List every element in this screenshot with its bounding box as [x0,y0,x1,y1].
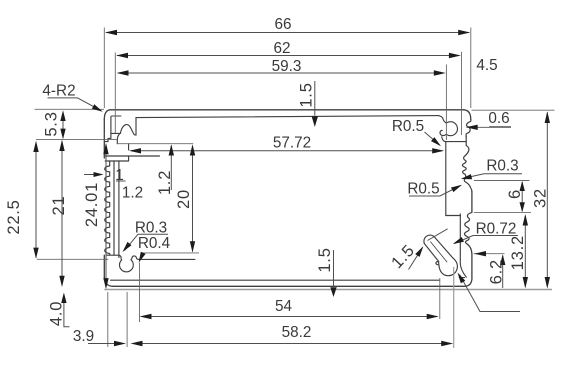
inner bottom surface line [111,279,440,281]
ext line 32 top right [472,109,555,111]
svg-text:24.01: 24.01 [83,182,101,227]
left serrated screw channel (bumps) [105,161,110,255]
ext line 3.9 right [126,292,128,347]
svg-text:R0.4: R0.4 [138,235,171,252]
svg-text:R0.3: R0.3 [486,158,518,175]
dim line 6.2 right [502,256,504,289]
clip lug foot [436,258,457,276]
svg-text:20: 20 [175,189,193,209]
ext line 3.9 left [107,292,109,347]
dim line 6 right [521,182,523,211]
arrow 62 right [449,53,461,58]
svg-text:6.2: 6.2 [487,259,505,284]
left inner thin wall line A [113,161,115,255]
svg-text:1.5: 1.5 [316,247,334,272]
arrow R0.5 top leader [431,137,441,146]
arrow 6.2 up [500,254,505,265]
diagonal clip lug right edge [434,236,453,258]
dim line 58.2 [136,343,452,345]
arrow 21 top [59,140,64,151]
dim line 62 [117,55,457,57]
ext line 20 top / under-lip line [117,143,193,145]
right wall outer straight segment [471,191,473,212]
leader 0.6 [477,126,511,129]
bottom-left boss ledge [107,254,119,256]
svg-text:54: 54 [275,298,293,315]
arrow 1.5 lug leader [415,246,423,257]
svg-text:3.9: 3.9 [73,328,94,345]
diagonal clip lug center line [431,242,448,262]
dim line 3.9 tail [88,343,122,345]
arrow 20 top [190,144,195,155]
arrow 57.72 left [129,148,141,153]
arrow 32 bottom [545,277,550,289]
arrow 57.72 right [432,148,444,153]
arrow 59.3 left [117,70,129,75]
right wall outer wavy section R0.3 [462,137,469,175]
ext line 62 right [461,52,463,135]
inner bottom right of foot [459,277,464,279]
leader R0.5 top [425,132,440,145]
arrow 24.01 top [103,143,108,154]
leader R0.3 left boss [125,234,169,250]
dim line 59.3 [118,72,442,74]
ext line 59.3 right / inner wall [445,65,447,141]
arrow 6.2 ledge left [474,251,486,256]
arrow 6 top [520,181,525,191]
svg-text:21: 21 [50,196,68,216]
arrow 13.2 top [523,214,528,226]
arrow 20 bottom [190,241,195,252]
diagonal clip lug left edge [424,244,438,262]
leader R0.3 right [463,174,523,179]
enclosure top-left corner R2 [104,110,110,120]
ext line 5.3 top [35,108,105,110]
under-lip left base curve [117,134,119,144]
dim line 13.2 right [524,216,526,285]
ext line 6 top right [474,180,530,182]
top-right screw boss circle with slot [439,116,458,136]
left inner thin wall line B [118,161,120,258]
right step ledge mid [446,215,461,217]
dim leader 1.2 serration [84,174,101,176]
top-left retaining mound (wedge) [120,125,136,136]
arrow 3.9 right-facing [114,341,126,346]
top-left PCB slot floor [111,132,120,134]
ext line 6 bottom / 13.2 top right [474,212,531,214]
leader 4-R2 [48,98,102,111]
enclosure outer top wall [110,109,464,111]
leader R0.4 left boss [140,253,144,260]
mound riser up to ceiling [135,118,137,136]
ext line 20 bottom / R0.4 underline [142,252,199,254]
svg-text:58.2: 58.2 [282,324,312,341]
right inner face lower [460,214,466,277]
arrow R0.3 left leader [123,242,132,252]
svg-text:R0.5: R0.5 [392,118,424,135]
arrow 0.6 leader [466,125,478,130]
dim line 1.5 top [314,81,316,116]
arrow 24.01 bottom [103,278,108,289]
ext line 22.5 bottom [37,258,109,260]
arrow R0.4 left leader [139,252,146,263]
svg-text:57.72: 57.72 [273,135,311,152]
ext line 66 right [470,28,472,109]
dim line 4.0 with foot [64,295,70,327]
dim line 21 [61,141,63,286]
inner top short segment left of mound [112,115,122,117]
slot mouth face [128,144,130,150]
svg-text:0.6: 0.6 [488,110,509,127]
arrow R0.3 right leader [461,174,472,179]
arrow 58.2 right [441,341,453,346]
leader 1.5 lug [409,229,448,270]
right wall outer transition to straight [464,174,472,191]
svg-text:59.3: 59.3 [272,58,302,75]
enclosure bottom-left corner R2 [104,277,113,286]
arrow 22.5 bottom [33,248,38,259]
dim line 24.01 [105,145,107,288]
svg-text:32: 32 [532,188,550,208]
svg-text:22.5: 22.5 [5,199,23,234]
dim leader 1.2rot [170,146,172,191]
svg-text:1: 1 [115,167,124,184]
svg-text:1.2: 1.2 [156,170,174,195]
svg-text:6: 6 [506,189,524,199]
arrow 66 right [458,30,470,35]
lower lip bottom [105,156,128,161]
arrow 1.2 serration right [94,172,104,177]
enclosure top-right corner R2 [464,110,471,120]
arrow 62 left [116,53,128,58]
inner top surface line [136,116,439,118]
svg-text:R0.5: R0.5 [407,181,439,198]
arrow 6 bottom [520,202,525,212]
svg-text:13.2: 13.2 [509,235,527,270]
diagonal clip lug tip arc [424,235,434,243]
svg-text:R0.3: R0.3 [135,220,167,237]
arrow 4-R2 leader [92,104,103,112]
svg-text:4.0: 4.0 [48,301,66,326]
enclosure outer bottom wall [113,285,465,287]
right wall outer: top corner to step [466,120,471,137]
arrow R0.5 lower leader [451,185,462,192]
leader R0.72 [455,236,519,244]
label 1 underline [116,180,126,182]
svg-text:1.2: 1.2 [122,185,143,202]
arrow 5.3 bottom [60,129,65,140]
arrow 5.3 top [60,110,65,121]
bottom-left screw boss circle with slot [119,255,135,272]
leader R0.5 lower [409,186,461,197]
svg-text:1.5: 1.5 [388,241,418,272]
left wall inner face upper [105,117,111,142]
dim line 22.5 [35,143,37,258]
bottom gray extension line [104,289,552,291]
svg-text:62: 62 [273,40,290,57]
svg-text:1.5: 1.5 [298,82,316,107]
arrow 1.5 top (inverted below wall) [312,116,318,127]
ext line 54 right [439,278,441,319]
ext line 58.2 right [453,267,455,348]
arrow 54 left [140,314,152,319]
ext line 66 left [103,28,105,109]
dim line 54 [142,316,438,318]
lower lip top face [106,155,160,157]
enclosure left outer wall [103,120,105,278]
arrow 59.3 right [434,70,446,75]
dim line 66 [106,32,469,34]
svg-text:66: 66 [274,16,291,33]
arrow 66 left [105,30,117,35]
arrow clip L-leader [458,273,466,284]
arrow 54 right [427,314,439,319]
svg-text:4-R2: 4-R2 [42,83,75,100]
dim line 5.3 [62,112,64,138]
arrow 1.5 bottom (inverted below wall) [330,287,336,297]
svg-text:R0.72: R0.72 [476,220,517,237]
enclosure bottom-right corner R2 [465,278,472,287]
arrow R0.72 leader [453,237,464,244]
svg-text:5.3: 5.3 [43,111,61,136]
right wall outer R0.72 serration [465,212,472,244]
right wall outer lower segment [468,245,472,278]
ext line 62/59.3 left [114,53,116,134]
arrow 22.5 top [33,141,38,152]
ext line 6.2 top [474,253,505,255]
ext line 54 left [139,263,141,323]
dim line 20 [192,146,194,252]
dim line 32 right [546,113,548,286]
arrow 1.2rot up [169,144,174,155]
dim line 57.72 [131,150,442,152]
right inner wall face [445,142,447,216]
arrow 32 top [545,111,550,123]
arrow 21 bottom [59,276,64,287]
right inner ledge below top boss [442,137,466,142]
arrow 4.0 up [61,293,66,304]
ext line 5.3 bottom [36,139,117,141]
arrow 13.2 bottom [523,277,528,289]
arrow 58.2 left [131,341,143,346]
bottom-left boss right lip [134,256,195,260]
leader lower clip L-shape [460,275,521,312]
dim line 1.5 bottom [333,250,335,286]
svg-text:4.5: 4.5 [476,57,497,74]
